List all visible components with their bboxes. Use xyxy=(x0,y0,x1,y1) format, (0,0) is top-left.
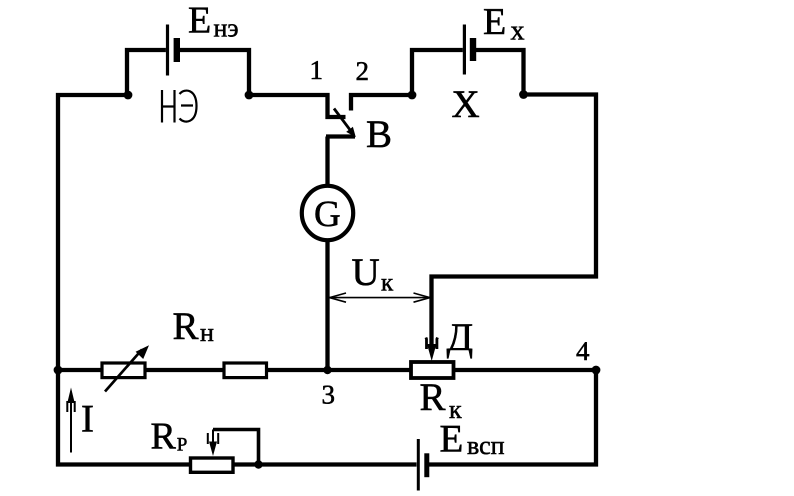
wire galvanometer to node 3 xyxy=(325,240,329,370)
node dot slider loop xyxy=(254,460,262,468)
resistor Rн (variable) box xyxy=(102,363,145,378)
battery ЕНЭ short thick plate xyxy=(174,38,180,62)
galvanometer G circle xyxy=(302,186,353,240)
svg-text:4: 4 xyxy=(576,336,590,366)
svg-text:X: X xyxy=(452,83,480,126)
wire bottom right segment and right lower vertical to node 4 xyxy=(429,370,596,465)
middle wire node 3 line xyxy=(58,368,596,372)
Рр slider arrow xyxy=(212,430,214,445)
battery Ех right lead xyxy=(475,50,524,95)
wire Ех right down to slider Д xyxy=(432,95,597,348)
node 3 dot xyxy=(323,366,331,374)
resistor Rн diagonal arrow xyxy=(105,350,142,392)
resistor Rк box xyxy=(411,362,454,378)
node dot НЭ left terminal xyxy=(124,91,133,100)
svg-text:2: 2 xyxy=(356,56,370,86)
svg-text:к: к xyxy=(381,270,394,297)
Uк double arrow xyxy=(330,293,431,302)
svg-text:Р: Р xyxy=(177,435,188,456)
svg-text:Д: Д xyxy=(447,316,474,359)
node dot НЭ right terminal xyxy=(245,91,254,100)
svg-text:1: 1 xyxy=(310,55,324,85)
battery Ех left lead xyxy=(412,50,463,95)
svg-text:G: G xyxy=(314,194,341,235)
Рр slider loop wire xyxy=(213,430,259,465)
wire НЭ to switch contact 1 xyxy=(249,95,346,117)
svg-text:В: В xyxy=(366,113,392,156)
battery ЕНЭ right lead xyxy=(178,50,249,95)
battery Евсп short thick plate xyxy=(424,453,429,477)
svg-text:R: R xyxy=(173,305,199,348)
svg-text:Е: Е xyxy=(483,1,506,43)
switch bottom bar xyxy=(326,134,355,138)
resistor (second fixed box of Rн) xyxy=(224,363,267,378)
svg-text:Е: Е xyxy=(440,418,464,461)
svg-text:х: х xyxy=(511,16,525,47)
svg-text:всп: всп xyxy=(467,431,505,460)
svg-text:U: U xyxy=(352,251,380,294)
switch blade B xyxy=(334,109,354,135)
battery Ех short thick plate xyxy=(470,38,476,61)
switch contact 2 stub and wire to Ех xyxy=(351,95,412,111)
battery ЕНЭ long plate xyxy=(166,25,169,76)
switch blade arrowhead xyxy=(346,127,356,138)
slider Д arrowhead xyxy=(427,344,436,361)
svg-text:I: I xyxy=(81,398,94,441)
svg-text:Е: Е xyxy=(188,0,211,42)
svg-text:нэ: нэ xyxy=(214,14,239,43)
node 4 dot xyxy=(592,366,601,375)
current arrow I xyxy=(70,400,72,453)
wire switch to galvanometer xyxy=(325,137,329,189)
battery ЕНЭ left lead xyxy=(127,50,166,95)
svg-text:R: R xyxy=(420,376,446,419)
label НЭ (thin condensed) xyxy=(162,90,197,123)
node dot Ех right terminal xyxy=(519,90,528,99)
svg-text:н: н xyxy=(200,318,214,347)
svg-text:3: 3 xyxy=(322,380,336,410)
battery Евсп long plate xyxy=(417,439,420,491)
resistor Рр box xyxy=(191,458,234,472)
node dot Ех left terminal xyxy=(408,91,417,100)
svg-text:R: R xyxy=(151,416,177,458)
wire left outer: top-left horizontal, left vertical, bottom wire left segment xyxy=(58,95,417,465)
battery Ех long plate xyxy=(463,25,466,75)
node dot left (wire / Rн) xyxy=(54,366,63,375)
